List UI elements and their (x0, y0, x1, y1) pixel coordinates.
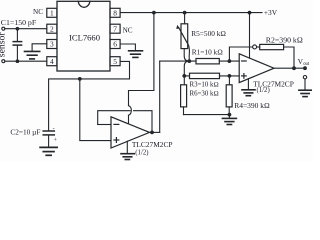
svg-text:R1=10 kΩ: R1=10 kΩ (192, 48, 223, 57)
svg-text:(1/2): (1/2) (135, 150, 148, 157)
svg-text:NC: NC (123, 26, 133, 34)
svg-text:ICL7660: ICL7660 (69, 33, 100, 43)
svg-text:R2=390 kΩ: R2=390 kΩ (266, 35, 303, 44)
svg-text:R6=30 kΩ: R6=30 kΩ (190, 90, 219, 97)
svg-text:(1/2): (1/2) (257, 87, 270, 94)
svg-text:5: 5 (113, 57, 117, 66)
svg-text:sensor: sensor (0, 32, 8, 58)
svg-text:R3=10 kΩ: R3=10 kΩ (190, 81, 219, 88)
svg-text:+3V: +3V (264, 8, 278, 17)
svg-text:-: - (53, 126, 55, 132)
svg-text:R4=390 kΩ: R4=390 kΩ (234, 101, 270, 110)
svg-text:R5=500 kΩ: R5=500 kΩ (191, 29, 226, 38)
svg-text:4: 4 (50, 57, 54, 66)
svg-text:1: 1 (50, 8, 54, 17)
svg-text:2: 2 (50, 24, 54, 33)
svg-text:6: 6 (113, 40, 117, 49)
svg-text:C2=10 µF: C2=10 µF (10, 127, 40, 136)
svg-text:7: 7 (113, 24, 117, 33)
svg-text:C1=150 pF: C1=150 pF (1, 18, 37, 27)
svg-text:NC: NC (33, 8, 43, 16)
svg-text:8: 8 (113, 8, 117, 17)
svg-text:TLC27M2CP: TLC27M2CP (132, 140, 173, 149)
svg-text:+: + (54, 138, 58, 144)
svg-text:out: out (303, 62, 310, 67)
svg-text:3: 3 (50, 40, 54, 49)
